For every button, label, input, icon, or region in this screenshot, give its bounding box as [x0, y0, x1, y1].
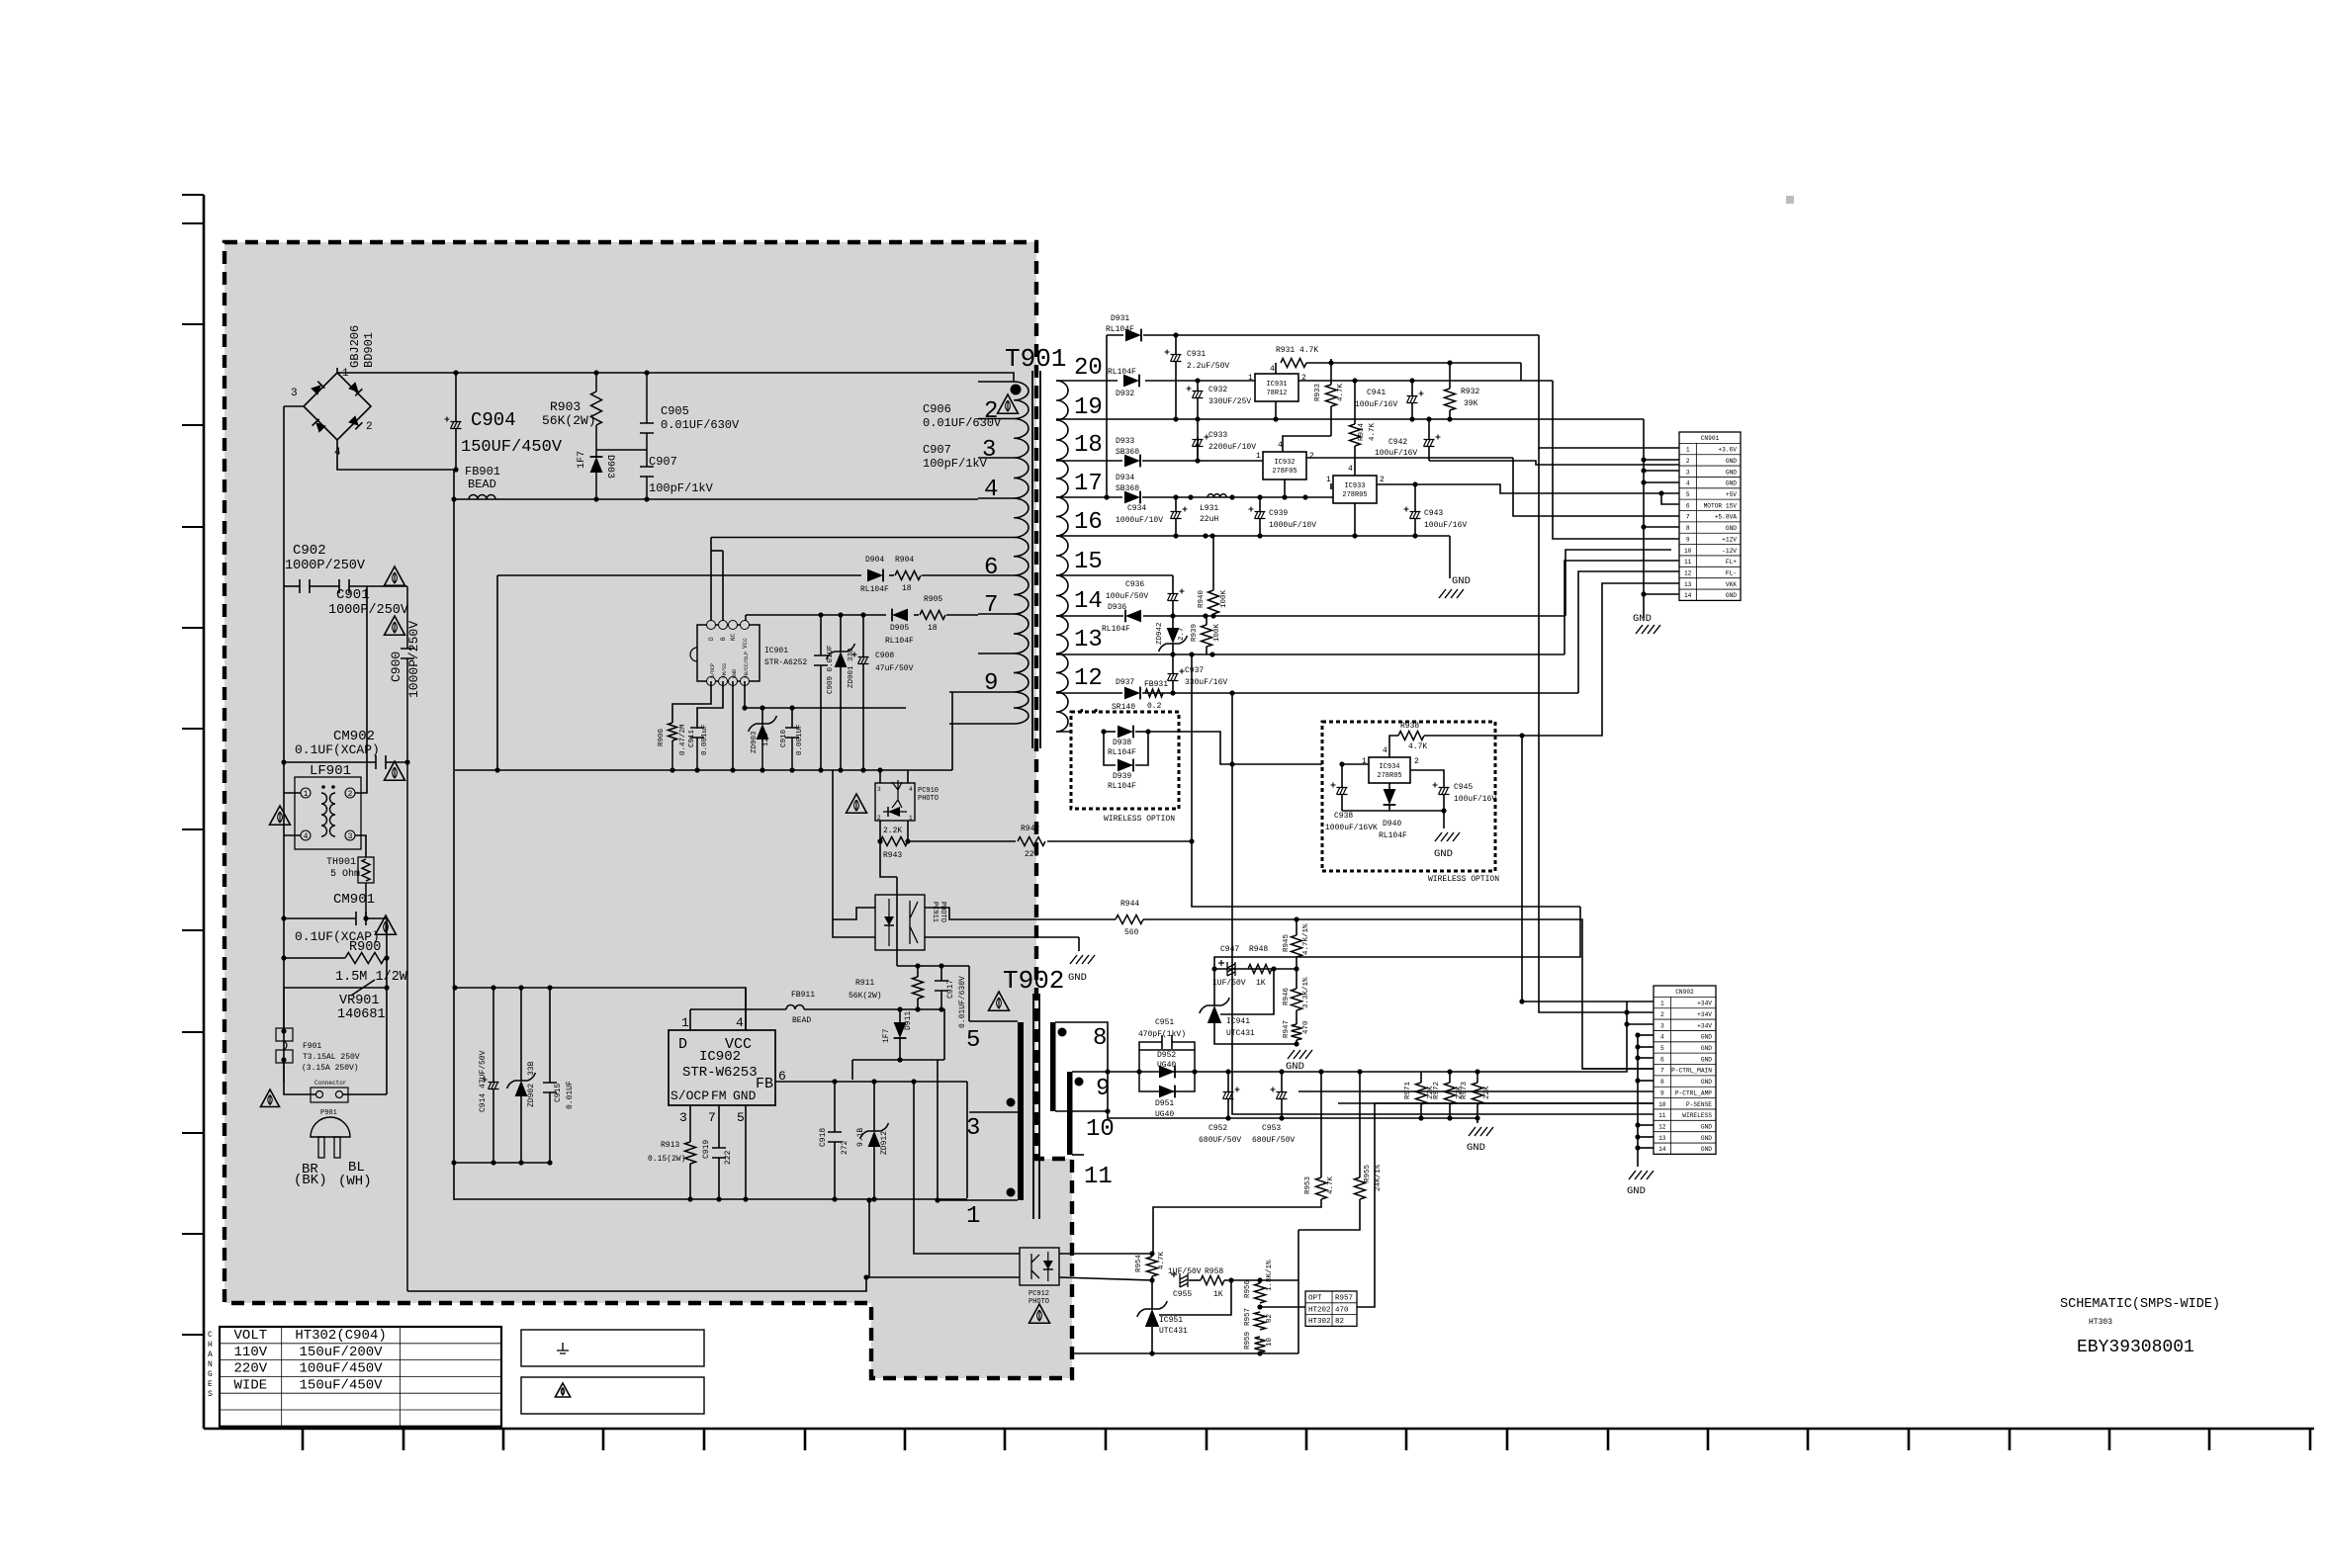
junction [760, 767, 764, 772]
wire [1522, 1001, 1627, 1002]
svg-text:R932: R932 [1461, 388, 1479, 396]
wire [284, 405, 304, 407]
junction [1203, 533, 1208, 538]
capacitor C945 [1439, 788, 1450, 795]
wire [1072, 1352, 1298, 1354]
diode D952 parallel loop [1139, 1050, 1195, 1091]
svg-text:R906: R906 [658, 728, 666, 746]
wire [1522, 583, 1679, 736]
svg-text:C902: C902 [293, 543, 326, 559]
junction [939, 963, 943, 968]
wire [1476, 1104, 1478, 1118]
wire [1443, 783, 1445, 787]
wire [455, 769, 952, 771]
wire [1056, 418, 1644, 420]
wire [520, 988, 522, 1081]
wire [1056, 653, 1565, 655]
junction [1149, 1350, 1154, 1355]
junction [1195, 458, 1200, 463]
svg-text:IC932: IC932 [1274, 459, 1295, 467]
ground [1435, 832, 1460, 841]
svg-text:G: G [208, 1370, 213, 1379]
junction [1475, 1115, 1479, 1120]
svg-text:RL104F: RL104F [860, 585, 889, 594]
wire [1197, 437, 1199, 461]
svg-text:560: 560 [1124, 928, 1139, 937]
svg-text:4: 4 [984, 477, 998, 503]
svg-text:S/OCP: S/OCP [710, 663, 716, 678]
wire [1579, 906, 1581, 908]
wire [1172, 575, 1174, 593]
junction [1635, 1055, 1640, 1060]
svg-text:278F05: 278F05 [1272, 468, 1297, 476]
svg-text:R942: R942 [1021, 825, 1039, 833]
wire to CN901 pin7 [1513, 458, 1679, 516]
svg-text:A: A [208, 1350, 213, 1359]
ground [1636, 625, 1660, 634]
svg-text:D911: D911 [904, 1011, 913, 1030]
wire [1078, 937, 1080, 951]
wire [732, 681, 734, 770]
resistor R939 [1202, 625, 1212, 647]
wire [1331, 496, 1333, 498]
svg-text:9: 9 [1686, 536, 1690, 543]
svg-text:R905: R905 [924, 595, 942, 604]
svg-text:330UF/25V: 330UF/25V [1208, 397, 1251, 406]
svg-text:GND: GND [1701, 1135, 1712, 1142]
svg-text:PHOTO: PHOTO [918, 795, 939, 803]
svg-text:RL104F: RL104F [1102, 625, 1130, 634]
svg-text:R903: R903 [550, 399, 581, 414]
photocoupler PC912 [1020, 1248, 1059, 1285]
ground [1070, 955, 1095, 964]
wire [671, 740, 673, 770]
wire [496, 575, 498, 770]
svg-text:R955: R955 [1364, 1164, 1372, 1182]
junction [1149, 1277, 1154, 1282]
resistor R932 [1445, 389, 1456, 410]
capacitor C953 [1277, 1092, 1288, 1099]
svg-text:1: 1 [1248, 374, 1253, 383]
svg-text:R948: R948 [1249, 945, 1268, 954]
junction [897, 1057, 902, 1062]
junction [1149, 1251, 1154, 1256]
wire [1214, 907, 1580, 969]
ferrite FB931 [1145, 689, 1163, 697]
junction [384, 985, 389, 990]
svg-text:D939: D939 [1113, 772, 1131, 781]
wire [284, 957, 345, 959]
wire [840, 667, 842, 770]
junction [1447, 416, 1452, 421]
svg-text:R957: R957 [1335, 1294, 1353, 1302]
svg-text:1: 1 [1326, 476, 1331, 484]
junction [1519, 999, 1524, 1003]
diode D951 [1159, 1086, 1175, 1098]
svg-text:1000uF/10V: 1000uF/10V [1269, 521, 1316, 530]
junction [1203, 613, 1208, 618]
junction [1279, 1069, 1284, 1074]
svg-text:7: 7 [984, 592, 998, 619]
wire [978, 653, 1014, 654]
capacitor C942 [1424, 440, 1435, 447]
svg-text:56K(2W): 56K(2W) [542, 413, 596, 428]
junction [1195, 416, 1200, 421]
wire [832, 770, 834, 919]
junction on top rail [593, 370, 598, 375]
wire [1330, 483, 1332, 489]
svg-text:100K: 100K [1220, 589, 1228, 608]
svg-text:GND: GND [1701, 1146, 1712, 1153]
wire [978, 537, 1014, 539]
svg-text:GND: GND [732, 669, 738, 678]
warning symbol [270, 806, 291, 825]
ground [1288, 1050, 1312, 1059]
svg-text:2: 2 [1414, 757, 1419, 766]
wire [343, 1093, 387, 1095]
svg-text:BD901: BD901 [362, 332, 376, 368]
svg-text:100uF/450V: 100uF/450V [300, 1361, 384, 1377]
wire [879, 770, 881, 783]
svg-text:D934: D934 [1116, 474, 1134, 482]
junction [1145, 729, 1150, 734]
svg-text:R958: R958 [1205, 1267, 1223, 1276]
svg-text:NC: NC [730, 633, 737, 641]
svg-text:12B: 12B [762, 733, 770, 746]
svg-text:C938: C938 [1334, 812, 1353, 821]
junction [760, 705, 764, 710]
junction [1229, 494, 1234, 499]
wire [711, 550, 723, 552]
svg-text:4.7K: 4.7K [1327, 1176, 1335, 1194]
wire [978, 381, 1014, 383]
connector CN902 [1654, 986, 1716, 1154]
capacitor C914 [489, 1083, 499, 1089]
svg-text:C945: C945 [1454, 783, 1473, 792]
wire [1206, 616, 1208, 625]
resistor R958 [1201, 1276, 1224, 1285]
wire [1143, 615, 1566, 617]
svg-text:RL104F: RL104F [885, 637, 914, 646]
junction [1412, 481, 1417, 486]
wire [1104, 732, 1116, 765]
junction [730, 767, 735, 772]
wire [1421, 1071, 1513, 1073]
wire [1227, 1099, 1229, 1118]
svg-text:R972: R972 [1433, 1082, 1441, 1099]
voltage regulator IC934 278R05 [1369, 757, 1410, 783]
svg-text:82: 82 [1266, 1314, 1274, 1323]
svg-text:R940: R940 [1198, 589, 1206, 608]
svg-text:ZD912: ZD912 [880, 1131, 889, 1155]
wire [1056, 574, 1173, 576]
svg-text:3: 3 [1660, 1022, 1664, 1029]
svg-text:ZD903: ZD903 [751, 731, 759, 753]
svg-text:6: 6 [1686, 502, 1690, 509]
shunt regulator IC941 UTC431 [1208, 1005, 1221, 1023]
svg-text:D936: D936 [1108, 603, 1126, 612]
junction [1635, 1078, 1640, 1083]
wire [1553, 381, 1679, 539]
wire [1296, 1010, 1297, 1024]
voltage regulator IC931 78R12 [1255, 374, 1298, 401]
junction [1352, 378, 1357, 383]
wire [925, 936, 1079, 938]
svg-text:FB901: FB901 [465, 465, 500, 479]
frame tick marks bottom [303, 1429, 2310, 1450]
svg-text:278R05: 278R05 [1377, 772, 1401, 780]
svg-text:14: 14 [1684, 592, 1692, 599]
wire [1145, 380, 1255, 382]
wire [1296, 1040, 1297, 1044]
capacitor C915 [543, 1083, 557, 1092]
shunt regulator IC951 UTC431 [1145, 1309, 1159, 1327]
junction [1257, 1350, 1262, 1355]
svg-text:1000P/250V: 1000P/250V [285, 559, 366, 573]
svg-text:1: 1 [1660, 1001, 1664, 1007]
ferrite bead FB911 [786, 1005, 804, 1010]
svg-text:D938: D938 [1113, 739, 1131, 747]
svg-text:PHOTO: PHOTO [939, 902, 946, 922]
junction [1195, 378, 1200, 383]
svg-text:C936: C936 [1125, 580, 1144, 589]
wire R911 top rail [897, 965, 969, 967]
svg-text:IC902: IC902 [699, 1049, 741, 1065]
wire [1330, 363, 1332, 385]
svg-text:1000uF/10V: 1000uF/10V [1116, 516, 1163, 525]
svg-text:P901: P901 [320, 1109, 337, 1117]
wire [1644, 526, 1679, 528]
resistor R947 [1292, 1024, 1302, 1040]
svg-text:1UF/50V: 1UF/50V [1168, 1267, 1202, 1276]
junction [935, 1197, 939, 1202]
svg-text:FB: FB [756, 1076, 773, 1092]
wire [1172, 644, 1174, 654]
svg-text:UTC431: UTC431 [1226, 1029, 1255, 1038]
junction [491, 985, 495, 990]
junction [1101, 729, 1106, 734]
svg-text:5: 5 [966, 1027, 980, 1054]
junction [1641, 479, 1646, 484]
svg-text:150uF/450V: 150uF/450V [300, 1377, 384, 1393]
svg-text:12: 12 [1074, 665, 1103, 692]
svg-text:470: 470 [1302, 1020, 1310, 1034]
junction [1279, 1115, 1284, 1120]
wire [840, 615, 842, 652]
junction [1339, 761, 1344, 766]
junction [1173, 494, 1178, 499]
svg-text:R900: R900 [349, 940, 381, 955]
voltage option table [220, 1327, 501, 1427]
wire [1142, 460, 1263, 462]
wire [1428, 419, 1430, 439]
svg-text:2.2uF/50V: 2.2uF/50V [1187, 362, 1229, 371]
svg-text:1F7: 1F7 [882, 1028, 891, 1043]
svg-text:18: 18 [902, 584, 912, 593]
wire [1298, 380, 1553, 382]
wire [851, 1079, 853, 1081]
wire [1189, 1279, 1201, 1281]
junction [281, 955, 286, 960]
wire [1056, 692, 1122, 694]
capacitor C932 [1193, 392, 1204, 398]
junction [494, 767, 499, 772]
junction [1170, 690, 1175, 695]
wire [1175, 497, 1177, 511]
svg-text:BEAD: BEAD [792, 1016, 811, 1025]
wire [1191, 654, 1193, 841]
junction [1641, 468, 1646, 473]
resistor R948 [1248, 965, 1272, 974]
capacitor C919 [712, 1148, 726, 1158]
wire [1476, 1072, 1478, 1083]
svg-text:GND: GND [1726, 480, 1737, 487]
diode D933 [1124, 455, 1140, 468]
wire [672, 681, 711, 723]
svg-text:4: 4 [1383, 746, 1387, 755]
wire [761, 740, 763, 770]
wire [761, 708, 763, 725]
junction [871, 1079, 876, 1084]
wire [1638, 1147, 1654, 1149]
wire [386, 761, 407, 763]
svg-text:0.01UF: 0.01UF [566, 1081, 575, 1109]
wire [1627, 1011, 1679, 1013]
wire [349, 585, 407, 587]
svg-text:FM: FM [711, 1089, 727, 1103]
wire [791, 738, 793, 770]
wire [1214, 968, 1297, 970]
diode D934 [1124, 491, 1140, 504]
wire [718, 1105, 720, 1148]
photocoupler PC910 [875, 783, 915, 821]
wire [453, 470, 455, 1163]
svg-text:D940: D940 [1383, 820, 1401, 828]
wire [1644, 470, 1679, 472]
junction [363, 915, 368, 920]
warning symbol [385, 566, 405, 585]
resistor R904 [895, 571, 921, 580]
wire [1644, 459, 1679, 461]
junction [1635, 1122, 1640, 1127]
wire [284, 917, 356, 919]
wire [1389, 736, 1398, 757]
wire [1661, 493, 1679, 504]
svg-text:6: 6 [984, 555, 998, 581]
junction [1173, 533, 1178, 538]
warning symbol [385, 616, 405, 635]
svg-text:IC933: IC933 [1344, 482, 1365, 490]
wire [697, 681, 723, 729]
junction [452, 985, 457, 990]
capacitor C936 [1168, 594, 1179, 601]
junction [1624, 1021, 1629, 1026]
junction [1228, 1277, 1233, 1282]
svg-text:C918: C918 [819, 1128, 828, 1147]
svg-text:D952: D952 [1157, 1051, 1176, 1060]
wire [820, 615, 822, 655]
svg-text:WIDE: WIDE [234, 1377, 268, 1393]
wire [949, 691, 978, 693]
junction [518, 985, 523, 990]
wire [917, 999, 919, 1009]
svg-text:22K: 22K [1483, 1086, 1491, 1099]
junction [644, 370, 649, 375]
svg-text:1: 1 [966, 1203, 980, 1230]
svg-text:78R12: 78R12 [1266, 390, 1287, 397]
wire [1151, 1254, 1153, 1257]
junction [915, 1006, 920, 1011]
svg-text:UTC431: UTC431 [1159, 1327, 1188, 1336]
T902 secondary winding bar 9-11 [1067, 1072, 1073, 1155]
resistor R940 [1208, 590, 1219, 614]
capacitor C931 [1171, 355, 1182, 362]
junction [1209, 652, 1214, 656]
svg-text:R934: R934 [1358, 422, 1366, 441]
svg-text:10: 10 [1266, 1337, 1274, 1347]
wire [1055, 1022, 1108, 1111]
shaded primary-side region [224, 242, 1072, 1378]
junction [1409, 378, 1414, 383]
wire [1197, 398, 1199, 461]
svg-text:47uF/50V: 47uF/50V [875, 664, 914, 673]
wire [1638, 1046, 1654, 1048]
capacitor C908 [858, 657, 869, 664]
svg-text:D: D [678, 1036, 687, 1053]
junction [818, 767, 823, 772]
junction [1447, 360, 1452, 365]
wire [852, 1059, 944, 1061]
T902 primary winding bar [1018, 1022, 1024, 1200]
wire [744, 681, 746, 708]
wire [1151, 1327, 1153, 1353]
capacitor C939 [1255, 512, 1266, 519]
svg-text:14: 14 [1074, 588, 1103, 615]
wire [1388, 805, 1390, 811]
svg-text:FB/CC/OLP: FB/CC/OLP [744, 652, 750, 678]
wire [862, 615, 864, 656]
resistor R933 [1326, 385, 1337, 406]
svg-text:20: 20 [1074, 355, 1103, 382]
junction [1257, 533, 1262, 538]
svg-text:12: 12 [1684, 569, 1692, 576]
wire [1578, 571, 1679, 693]
junction [593, 496, 598, 501]
svg-text:HT302(C904): HT302(C904) [295, 1328, 386, 1344]
junction [832, 1079, 837, 1084]
wire [722, 551, 724, 625]
svg-text:GND: GND [1467, 1142, 1485, 1154]
svg-text:0.001uF: 0.001uF [701, 724, 709, 755]
svg-text:RL104F: RL104F [1108, 782, 1136, 791]
junction [1294, 966, 1298, 971]
svg-text:(WH): (WH) [338, 1174, 372, 1189]
svg-text:D: D [708, 637, 715, 641]
resistor R900 [345, 953, 385, 964]
wire [1059, 1277, 1152, 1280]
wire [284, 585, 300, 587]
svg-text:12: 12 [1658, 1123, 1666, 1130]
resistor R943 [880, 837, 908, 846]
svg-text:1000P/250V: 1000P/250V [328, 603, 409, 618]
svg-text:(3.15A 250V): (3.15A 250V) [302, 1064, 359, 1073]
svg-text:CM901: CM901 [333, 892, 375, 908]
svg-text:P-CTRL_MAIN: P-CTRL_MAIN [1671, 1068, 1712, 1075]
capacitor C955 [1180, 1273, 1188, 1287]
capacitor C947 [1227, 962, 1235, 976]
photocoupler PC911 [875, 895, 925, 950]
svg-text:8: 8 [1093, 1025, 1107, 1052]
